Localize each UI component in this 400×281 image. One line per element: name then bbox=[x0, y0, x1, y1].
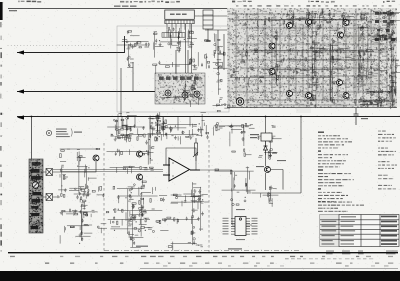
driver stage components bbox=[106, 179, 168, 248]
AM/FM band switch network bbox=[58, 148, 104, 199]
dashed board boundary right bbox=[208, 140, 210, 252]
components under supply rail bbox=[110, 112, 209, 144]
page header text bbox=[18, 1, 395, 3]
wire: FM aerial line with off-page arrow bbox=[17, 91, 156, 93]
transistor T6 bbox=[306, 19, 312, 25]
regulator network bbox=[257, 125, 281, 159]
transistor T5 bbox=[287, 91, 293, 97]
service notes text column bbox=[318, 132, 354, 203]
transistor T10 bbox=[337, 80, 343, 86]
tone switch components bbox=[60, 197, 107, 244]
coupling network under IC box bbox=[159, 28, 210, 53]
wire: audio bus pair bbox=[53, 170, 163, 172]
preamp RC network bbox=[107, 116, 161, 174]
notes above table bbox=[318, 202, 364, 212]
table cell text bbox=[322, 216, 398, 245]
wire: antenna bar feed bbox=[31, 117, 33, 160]
transistor T15 bbox=[93, 155, 99, 161]
tuner module components bbox=[229, 10, 400, 109]
transistor T14 bbox=[265, 167, 271, 173]
tuner AF stage components bbox=[353, 59, 400, 107]
legend: measurement point symbol bbox=[46, 130, 51, 135]
connector plug 1 bbox=[46, 169, 53, 176]
IC module box U1 (top) bbox=[165, 10, 195, 19]
wire: bar to plug 2 bbox=[43, 196, 60, 198]
op-amp feedback loop bbox=[166, 148, 196, 176]
transistor T13 bbox=[137, 174, 143, 180]
ferrite rod antenna bar (shaded) bbox=[29, 159, 43, 233]
wire: output to speaker line bbox=[200, 170, 252, 225]
wire: top rail (TA 20) bbox=[8, 8, 231, 10]
tuner upper components bbox=[268, 10, 354, 34]
volume potentiometer bbox=[193, 138, 198, 161]
dashed board boundary left bbox=[103, 143, 105, 252]
transistor T4 bbox=[287, 23, 293, 29]
voltage/current table bbox=[320, 215, 399, 247]
bottom strip partial rule bbox=[140, 267, 398, 269]
input filter stage bbox=[117, 30, 164, 73]
antenna trimmer bbox=[32, 182, 38, 188]
zener diode D1 bbox=[264, 141, 268, 155]
resistor bank blobs bbox=[375, 12, 395, 41]
dotted fold line bbox=[8, 44, 105, 47]
emitter network bbox=[260, 186, 278, 207]
switch bank wiring bbox=[213, 122, 254, 156]
wire: IC bus verticals bbox=[167, 24, 192, 73]
voltage regulator box bbox=[261, 133, 272, 141]
tuning coil L3 bbox=[194, 91, 200, 97]
AM/FM tuner module board (shaded) bbox=[227, 8, 400, 113]
junction bbox=[265, 116, 267, 118]
bottom voltage table rows bbox=[10, 256, 393, 267]
wire: drops from supply rail bbox=[122, 117, 190, 131]
service notes right column bbox=[378, 131, 397, 190]
connector socket BU1 bbox=[236, 98, 244, 106]
tuner right-side resistor bank bbox=[372, 9, 400, 49]
junction bbox=[31, 116, 33, 118]
FM front-end sub-module (shaded) bbox=[155, 73, 205, 104]
AM input filter can bbox=[203, 10, 224, 70]
wire: bus from IC to tuner bbox=[121, 16, 227, 117]
wire: tape input line with off-page arrow bbox=[17, 36, 125, 53]
connector plug 2 bbox=[46, 194, 53, 201]
IC U3 pins bbox=[231, 219, 250, 235]
tuning coil L1 bbox=[165, 90, 171, 96]
output coupling parts bbox=[215, 167, 256, 206]
dash-dot chassis line bbox=[104, 250, 300, 252]
transistor T8 bbox=[338, 32, 344, 38]
junction bbox=[300, 116, 302, 118]
transistor T11 bbox=[343, 93, 349, 99]
mixer stage parts bbox=[158, 52, 210, 74]
tuning coil L2 bbox=[182, 92, 188, 98]
front-end components bbox=[161, 75, 202, 107]
IC U3 (DIP-14) bbox=[235, 217, 246, 236]
transistor T9 bbox=[343, 20, 349, 26]
transistor T12 bbox=[137, 151, 143, 157]
wire: regulator rail bbox=[266, 117, 284, 191]
capacitor C90 under tuner bbox=[354, 108, 359, 125]
tone control network bbox=[152, 113, 206, 142]
lower header strip bbox=[162, 33, 185, 38]
chassis dash label bbox=[136, 246, 242, 250]
transistor T7 bbox=[306, 93, 312, 99]
wire: bar to plug 1 bbox=[43, 162, 96, 172]
wire: drop to output stage bbox=[252, 117, 301, 194]
AM filter parts bbox=[213, 33, 225, 58]
bottom voltage table rule bbox=[8, 252, 398, 254]
antenna coil windings bbox=[31, 162, 42, 229]
IC pin header strip bbox=[165, 20, 195, 24]
front-end screening row bbox=[159, 77, 199, 80]
op-amp audio amplifier U2 bbox=[163, 158, 200, 181]
IF transformer group bbox=[213, 59, 231, 112]
tuner board lower edge bbox=[227, 107, 397, 109]
label above IC bbox=[114, 6, 137, 7]
transistor T2 bbox=[269, 43, 275, 49]
IC module pins bbox=[167, 24, 190, 30]
transistor T3 bbox=[269, 69, 275, 75]
wire: AM aerial / supply rail line with off-page arrow bbox=[17, 116, 400, 118]
table footnotes bbox=[326, 251, 398, 255]
screened box outline around front-end bbox=[117, 26, 229, 112]
bias network bbox=[164, 182, 209, 251]
